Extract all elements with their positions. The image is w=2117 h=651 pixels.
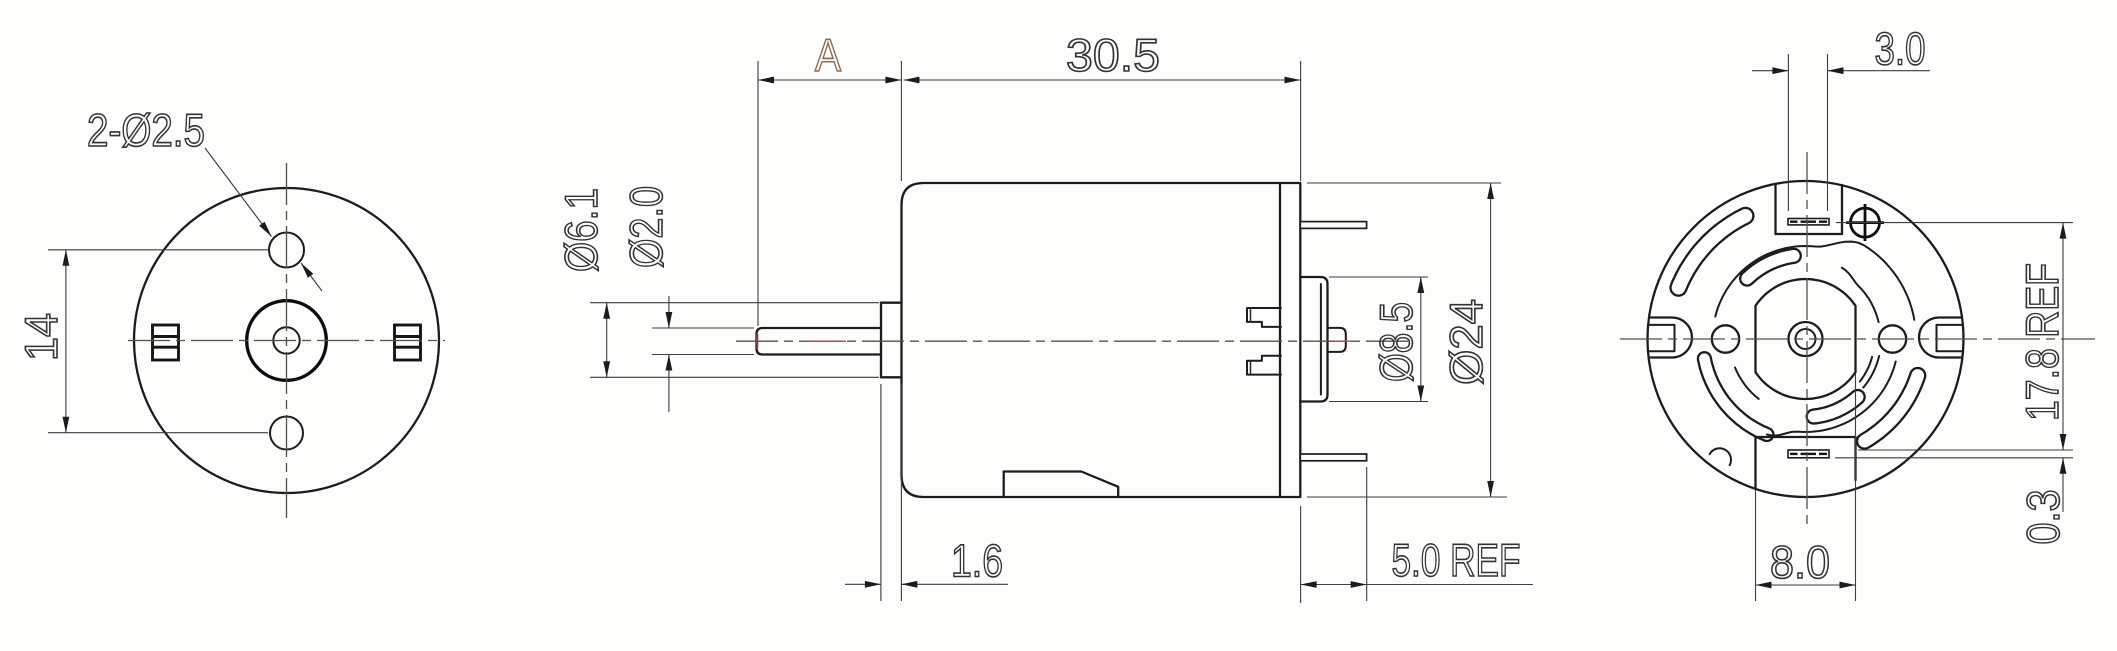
svg-text:3.0: 3.0 xyxy=(1875,23,1926,75)
svg-text:1.6: 1.6 xyxy=(951,535,1003,587)
svg-text:8.0: 8.0 xyxy=(1770,536,1830,588)
svg-text:Ø24: Ø24 xyxy=(1440,299,1492,385)
svg-text:2-Ø2.5: 2-Ø2.5 xyxy=(87,104,205,156)
svg-text:5.0 REF: 5.0 REF xyxy=(1392,534,1521,586)
svg-text:Ø8.5: Ø8.5 xyxy=(1370,302,1422,382)
svg-text:14: 14 xyxy=(15,313,67,361)
svg-text:A: A xyxy=(815,29,841,81)
svg-text:Ø6.1: Ø6.1 xyxy=(555,188,607,272)
svg-text:0.3: 0.3 xyxy=(2017,490,2069,545)
svg-text:17.8 REF: 17.8 REF xyxy=(2016,263,2068,421)
svg-text:Ø2.0: Ø2.0 xyxy=(620,186,672,268)
svg-text:30.5: 30.5 xyxy=(1066,29,1160,81)
